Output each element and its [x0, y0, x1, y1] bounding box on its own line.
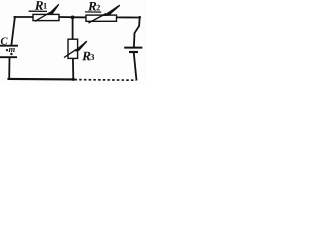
wire R2 to top-right corner [117, 16, 140, 18]
label R1 [35, 1, 43, 10]
resistor R1 arrow [35, 4, 59, 21]
wire R3 branch upper vertical from T junction [72, 17, 74, 39]
wire right lower vertical from battery to bottom corner [134, 53, 137, 80]
wire bottom solid segment [9, 78, 74, 81]
wire right upper vertical from corner down to battery [134, 17, 140, 47]
label R2 subscript 2 [96, 5, 100, 11]
wire R3 branch lower vertical to bottom wire [72, 58, 74, 79]
resistor R2 box [86, 15, 117, 21]
label R1 subscript 1 [44, 3, 47, 9]
resistor R2 arrow [89, 5, 120, 23]
capacitor C top plate [0, 45, 18, 47]
wire bottom dotted segment [75, 79, 137, 82]
wire top-left horizontal [14, 16, 33, 18]
label R3 subscript 3 [91, 54, 95, 60]
capacitor C bottom plate [0, 56, 17, 58]
node T junction top [71, 16, 75, 20]
label R1 underline [29, 10, 47, 12]
node junction bottom [72, 78, 75, 81]
battery long plate [124, 47, 142, 49]
label m [9, 48, 15, 52]
node particle dot lower [10, 53, 12, 55]
node particle dot [6, 49, 8, 51]
label C [1, 37, 8, 44]
wire left lower vertical from capacitor bottom plate to bottom corner [8, 58, 10, 79]
label R2 underline [85, 11, 101, 13]
resistor R3 box [68, 39, 78, 58]
wire between R1 and R2 [59, 16, 86, 18]
wire left vertical from corner down to capacitor top plate [11, 17, 15, 45]
battery short plate [129, 51, 138, 53]
label R2 [88, 2, 96, 11]
resistor R3 arrow [64, 41, 87, 57]
resistor R1 box [33, 14, 59, 20]
label R3 [82, 52, 90, 61]
